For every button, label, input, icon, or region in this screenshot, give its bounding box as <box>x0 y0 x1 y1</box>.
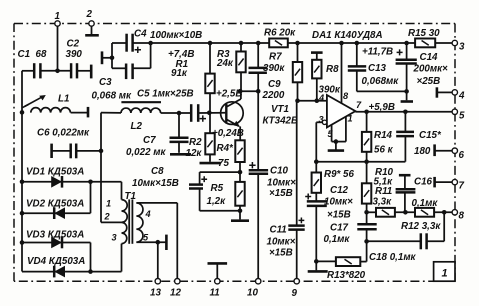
svg-text:R5: R5 <box>211 183 224 194</box>
ground chassis bar above C16 <box>399 174 411 177</box>
svg-text:C15*: C15* <box>419 130 442 141</box>
terminal 13 <box>155 279 160 284</box>
svg-text:180: 180 <box>414 146 431 157</box>
svg-text:3: 3 <box>459 42 465 53</box>
svg-text:C14: C14 <box>420 52 439 63</box>
svg-text:R7: R7 <box>269 52 282 63</box>
svg-text:24к: 24к <box>216 58 234 69</box>
diode VD3 <box>51 237 62 249</box>
svg-text:C16: C16 <box>414 177 433 188</box>
capacitor C14 <box>406 43 408 59</box>
svg-text:R2: R2 <box>189 137 202 148</box>
R13 body <box>336 257 360 266</box>
capacitor C7 <box>178 113 180 137</box>
diode VD4 <box>54 266 65 278</box>
svg-text:3,3к: 3,3к <box>373 197 393 208</box>
terminal 4 contact <box>436 87 439 97</box>
svg-text:C2: C2 <box>67 39 80 50</box>
svg-text:R9* 56: R9* 56 <box>324 169 355 180</box>
R4 body <box>235 140 244 162</box>
transformer T1 primary winding <box>122 200 128 244</box>
svg-text:C11: C11 <box>270 225 287 236</box>
svg-text:C17: C17 <box>330 223 349 234</box>
R3 body <box>236 52 245 73</box>
svg-text:R15 30: R15 30 <box>408 28 440 39</box>
svg-text:R6 20к: R6 20к <box>264 28 296 39</box>
svg-text:10мк×15В: 10мк×15В <box>132 178 179 189</box>
svg-text:5: 5 <box>328 129 334 139</box>
resistor R7 <box>297 43 299 62</box>
svg-text:0,068мк: 0,068мк <box>362 76 400 87</box>
R1 body <box>205 74 214 94</box>
wire T1 pin4 to terminal 12 <box>136 202 177 204</box>
resistor R14 <box>366 112 368 132</box>
terminal 5 <box>452 109 457 114</box>
wire filter ground stub <box>102 57 112 59</box>
pin 3 (inverting input) <box>322 120 326 124</box>
svg-text:×15В: ×15В <box>269 188 293 199</box>
svg-text:5: 5 <box>459 111 465 122</box>
wire L2 cold line <box>100 113 102 223</box>
L1 adjust arrow <box>25 96 44 106</box>
svg-text:10: 10 <box>247 288 258 299</box>
svg-text:C6 0,022мк: C6 0,022мк <box>37 128 90 139</box>
C6 plates <box>71 144 77 159</box>
svg-text:C12: C12 <box>330 185 349 196</box>
svg-text:11: 11 <box>210 288 220 299</box>
ground bar above terminal 11 <box>208 262 228 265</box>
C11 plates <box>288 226 304 230</box>
wire T1 pin2 tap <box>101 221 122 223</box>
svg-text:2200: 2200 <box>262 90 285 101</box>
svg-text:+2,5В: +2,5В <box>216 89 242 100</box>
svg-text:1: 1 <box>442 268 448 280</box>
R7 body <box>293 62 302 82</box>
ground bar under C12 <box>308 270 328 273</box>
svg-text:+5,9В: +5,9В <box>369 102 395 113</box>
C5 plates <box>191 104 198 122</box>
capacitor C13 <box>356 43 358 66</box>
svg-text:×25В: ×25В <box>417 76 441 87</box>
transformer T1 secondary winding <box>136 203 143 242</box>
svg-text:56 к: 56 к <box>374 145 394 156</box>
resistor R11 <box>367 211 376 213</box>
ground bar under op-amp pins 1,5 <box>335 142 337 150</box>
svg-text:C5 1мк×25В: C5 1мк×25В <box>137 89 194 100</box>
svg-text:+0,24В: +0,24В <box>212 128 244 139</box>
svg-text:8: 8 <box>459 211 465 222</box>
resistor R3 <box>240 43 242 52</box>
svg-text:DA1 К140УД8А: DA1 К140УД8А <box>312 30 383 41</box>
svg-text:×15В: ×15В <box>269 248 293 259</box>
svg-text:200мк×: 200мк× <box>413 64 449 75</box>
ground bar under C14 <box>401 100 413 103</box>
svg-text:6: 6 <box>459 150 465 161</box>
open contact bar right of C2 <box>90 65 93 79</box>
terminal 10 <box>256 279 261 284</box>
capacitor C10 <box>257 91 259 170</box>
R6 body <box>269 39 288 48</box>
svg-text:12: 12 <box>170 288 181 299</box>
C3 plates <box>126 64 133 80</box>
svg-text:7: 7 <box>356 100 362 110</box>
capacitor C15 <box>404 112 406 132</box>
svg-text:390к: 390к <box>263 63 285 74</box>
ground bar under C7 <box>170 153 191 156</box>
wire op-amp output +5.9V <box>355 111 452 113</box>
C13 plates <box>348 66 366 70</box>
C10 plates <box>249 170 268 174</box>
svg-text:10мк×: 10мк× <box>267 178 296 189</box>
svg-text:1: 1 <box>106 199 111 209</box>
svg-text:C8: C8 <box>151 166 164 177</box>
R2 body <box>205 133 214 154</box>
C15 plates <box>396 132 414 136</box>
R15 body <box>415 39 435 48</box>
capacitor C18 <box>443 212 445 241</box>
open contact bar right of L1 <box>87 107 90 118</box>
C4 plates <box>127 34 133 52</box>
terminal 11 <box>216 263 218 278</box>
wire VD2 row <box>22 212 91 214</box>
ground bar under R5 <box>231 219 249 222</box>
capacitor C17 <box>366 212 368 223</box>
svg-text:C9: C9 <box>268 79 281 90</box>
terminal 9 <box>294 279 299 284</box>
svg-text:R4*: R4* <box>217 143 235 154</box>
svg-text:Т1: Т1 <box>125 191 136 202</box>
wire VD1 row <box>22 181 122 183</box>
svg-text:C3: C3 <box>99 77 112 88</box>
ground chassis bar at C3/C4 filter <box>101 51 104 64</box>
ground chassis bar at T1 pin 5 <box>165 235 168 250</box>
terminal 12 <box>175 279 180 284</box>
svg-text:5: 5 <box>143 233 149 243</box>
svg-text:2: 2 <box>104 212 111 222</box>
L2 coil <box>121 108 161 113</box>
pin 5 <box>331 125 333 142</box>
T1 core <box>128 199 130 243</box>
terminal 8 <box>452 210 457 215</box>
svg-text:R13*820: R13*820 <box>327 270 366 281</box>
C7 plates <box>170 138 189 142</box>
wire +7.4V supply rail <box>134 42 270 44</box>
resistor R13 <box>316 260 336 262</box>
svg-text:VT1: VT1 <box>271 104 289 115</box>
svg-text:9: 9 <box>292 288 298 299</box>
R12 body <box>415 208 434 217</box>
svg-text:C18 0,1мк: C18 0,1мк <box>369 252 417 263</box>
svg-text:0,022 мк: 0,022 мк <box>126 147 166 158</box>
svg-text:0,1мк: 0,1мк <box>412 198 439 209</box>
svg-text:C13: C13 <box>368 63 387 74</box>
C17 plates <box>357 224 376 229</box>
svg-text:10мк×: 10мк× <box>324 197 353 208</box>
svg-text:12к: 12к <box>186 148 203 159</box>
svg-text:VD3 КД503А: VD3 КД503А <box>26 230 84 241</box>
diode VD2 <box>54 207 65 219</box>
svg-text:C4: C4 <box>134 29 147 40</box>
wire C3/C4 filter loop <box>112 42 126 44</box>
C8 plates <box>189 185 203 189</box>
svg-text:91к: 91к <box>171 68 188 79</box>
R8 body <box>312 60 321 79</box>
svg-text:1: 1 <box>348 114 353 124</box>
svg-text:C10: C10 <box>270 166 289 177</box>
transistor VT1 KT342B <box>221 99 244 126</box>
R11 body <box>376 208 395 217</box>
svg-text:C7: C7 <box>143 135 156 146</box>
svg-text:VD4 КД503А: VD4 КД503А <box>27 256 85 267</box>
terminal 6 contact <box>433 144 436 156</box>
C2 plates <box>71 63 77 78</box>
dash-dot frame border <box>14 24 455 282</box>
svg-text:+11,7В: +11,7В <box>362 47 393 58</box>
svg-text:13: 13 <box>150 288 161 299</box>
svg-text:4: 4 <box>318 93 324 103</box>
diode VD1 <box>51 176 62 188</box>
svg-text:R11: R11 <box>375 186 392 197</box>
terminal 7 contact <box>433 177 436 188</box>
svg-text:1: 1 <box>55 11 60 22</box>
wire op-amp non-inverting input <box>298 100 327 102</box>
svg-text:L1: L1 <box>58 94 69 105</box>
svg-text:0,1мк: 0,1мк <box>324 234 351 245</box>
svg-text:КТ342Б: КТ342Б <box>263 116 298 127</box>
op-amp DA1 K140UD8A <box>327 95 356 127</box>
ground bar under terminal 2 <box>85 34 99 37</box>
wire collector node <box>241 90 258 92</box>
svg-text:10мк×: 10мк× <box>267 237 296 248</box>
R5 body <box>235 182 244 206</box>
R10 body <box>362 183 371 203</box>
C1 plates <box>34 63 40 78</box>
svg-text:L2: L2 <box>131 121 143 132</box>
svg-text:2: 2 <box>86 9 93 20</box>
svg-text:VD2 КД503А: VD2 КД503А <box>26 199 84 210</box>
terminal 2 with chassis stub <box>91 26 93 35</box>
resistor R2 <box>209 113 211 134</box>
wire T1 pin5 <box>136 241 165 243</box>
wire feedback node <box>316 161 405 163</box>
resistor R9 <box>315 162 317 173</box>
inductor L2 with core <box>121 101 161 103</box>
svg-text:3: 3 <box>112 233 117 243</box>
node L1 left <box>20 110 25 115</box>
svg-text:8: 8 <box>343 91 349 101</box>
R9 body <box>312 173 321 193</box>
wire emitter node <box>200 171 240 173</box>
wire T1 pin3 <box>121 244 123 272</box>
ground bar under R2 <box>200 162 221 165</box>
svg-text:100мк×10В: 100мк×10В <box>150 30 202 41</box>
C9 plates <box>249 68 267 73</box>
svg-text:4: 4 <box>145 209 151 219</box>
wire antenna input row <box>22 70 34 72</box>
frame index box 1 <box>434 262 455 281</box>
terminal 3 <box>452 40 457 45</box>
svg-text:68: 68 <box>36 49 47 60</box>
svg-text:1,2к: 1,2к <box>207 196 227 207</box>
capacitor C11 <box>296 101 298 225</box>
resistor R5 <box>239 172 241 182</box>
pin 1 <box>345 117 347 142</box>
wire left rail down from C1 <box>21 71 23 272</box>
svg-text:×15В: ×15В <box>327 210 351 221</box>
wire VD3 row <box>22 242 91 244</box>
C18 plates <box>421 233 427 249</box>
terminal 1 <box>57 26 59 71</box>
svg-text:R14: R14 <box>374 130 393 141</box>
resistor R1 <box>209 43 211 74</box>
svg-text:VD1 КД503А: VD1 КД503А <box>26 167 84 178</box>
ground chassis bar above R8 <box>311 51 323 54</box>
L1 coil <box>31 108 71 113</box>
svg-text:3: 3 <box>319 115 324 125</box>
capacitor C6 <box>50 144 53 158</box>
C14 plates <box>396 60 417 64</box>
svg-text:390: 390 <box>66 49 83 60</box>
capacitor C9 <box>257 43 259 68</box>
C16 plates <box>396 189 416 192</box>
capacitor C8 <box>199 172 201 184</box>
wire T1 pin1 <box>121 182 123 200</box>
svg-text:7: 7 <box>459 181 465 192</box>
svg-text:C1: C1 <box>18 49 31 60</box>
svg-text:75: 75 <box>218 158 229 169</box>
pin 8 <box>341 43 343 103</box>
svg-text:0,068 мк: 0,068 мк <box>92 91 132 102</box>
svg-text:R8: R8 <box>326 64 339 75</box>
C12 plates <box>307 201 327 206</box>
R14 body <box>362 132 371 152</box>
resistor R8 connection <box>316 53 318 60</box>
resistor R10 <box>366 162 368 184</box>
svg-text:R12 3,3к: R12 3,3к <box>401 221 441 232</box>
wire VD4 row <box>22 271 122 273</box>
svg-text:4: 4 <box>458 91 465 102</box>
capacitor C16 stub <box>404 175 406 189</box>
